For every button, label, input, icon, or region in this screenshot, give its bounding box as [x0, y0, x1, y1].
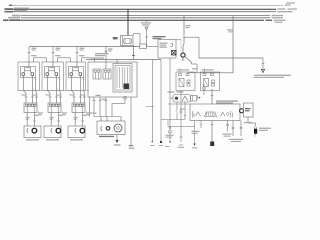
- label bus6 left: [3, 19, 20, 21]
- wire door boxes bottom join: [18, 90, 89, 92]
- master terminal circle: [203, 84, 206, 95]
- label bus5 right: [272, 17, 284, 18]
- wire drop bus4 right: [232, 16, 234, 73]
- label passenger drop: [108, 48, 113, 51]
- wire M2 left link: [170, 97, 173, 99]
- cluster B contact: [204, 79, 209, 87]
- sub-switch 3 internal wires: [75, 106, 82, 112]
- label wire color 2: [56, 48, 61, 51]
- power window relay box: [121, 36, 134, 46]
- wire bar to motor b: [106, 117, 108, 122]
- motor 3 pin: [75, 128, 76, 133]
- window sub-switch box 1: [24, 103, 37, 113]
- cluster A contact: [179, 79, 184, 87]
- wire switch 1 out mid: [31, 75, 33, 103]
- relay 2 link dashed: [176, 40, 181, 53]
- window motor 2: [56, 128, 61, 133]
- window motor 3 box: [68, 126, 85, 138]
- wire switch 2 out right: [59, 78, 62, 104]
- label cluster A: [177, 69, 189, 70]
- label window motor 1: [26, 139, 39, 140]
- wire cluster A pin stub: [180, 69, 205, 74]
- master switch cluster A box: [176, 72, 195, 91]
- label window motor 3: [70, 139, 83, 140]
- junction box: [140, 44, 147, 49]
- label arm wire: [192, 68, 198, 69]
- circuit breaker CB: [145, 20, 148, 46]
- sub-switch 3 pins: [74, 104, 85, 106]
- arrow to next circuit: [261, 69, 264, 72]
- label motor wire 3a: [73, 117, 78, 118]
- motor 4 pin: [101, 126, 102, 131]
- label window motor 2: [46, 139, 59, 140]
- ground Gf: [192, 144, 198, 149]
- master switch contact box: [168, 104, 240, 121]
- label bus1 right: [285, 4, 291, 5]
- wire motor 1 left: [26, 113, 29, 127]
- wire drop to switch 1: [28, 47, 31, 63]
- wire junction to relay2: [147, 46, 159, 48]
- label sub-switch 1: [38, 112, 43, 115]
- wire motor4 to ground: [116, 135, 118, 141]
- window motor 2 box: [44, 126, 61, 138]
- wire passenger box left edge down: [89, 97, 91, 117]
- M2 contact arm: [182, 96, 188, 101]
- wire rear switch feed b: [240, 121, 242, 137]
- wire passenger out 1: [93, 97, 96, 117]
- label front passenger window motor: [99, 136, 114, 137]
- window switch 2 outer box: [42, 62, 64, 91]
- motor 4 terminal: [106, 127, 110, 131]
- ground Ge: [178, 145, 185, 148]
- label rail f: [192, 131, 200, 134]
- window switch 1 outer box: [18, 62, 40, 91]
- left front window motor: [254, 129, 257, 134]
- label side box out: [244, 122, 252, 123]
- wire motor tail: [254, 134, 255, 138]
- passenger lockout sub-box: [113, 64, 132, 93]
- wire master mid: [211, 89, 214, 104]
- wire bridge 2: [58, 58, 71, 62]
- label left front window motor: [259, 128, 271, 131]
- power window relay 2 box: [158, 40, 176, 59]
- wire drop to passenger switch: [105, 47, 107, 63]
- connector ticks 2: [49, 96, 62, 98]
- label motor wire 2a: [49, 117, 54, 118]
- label bus2 left (A: WHITE): [5, 8, 30, 10]
- wire drop battery feed: [127, 9, 129, 35]
- wire ground rail a: [146, 60, 154, 142]
- label motor wire 1a: [25, 117, 30, 118]
- ground G ps5: [129, 146, 135, 149]
- label switch assembly 2: [55, 55, 61, 56]
- wire master link: [161, 102, 186, 120]
- label connector C relay: [113, 37, 118, 39]
- label motor wire 1b: [34, 115, 39, 116]
- label sub-switch 3: [86, 112, 91, 115]
- wire ground rail e: [180, 91, 183, 143]
- wire bus line 4 (ignition feed): [21, 15, 270, 17]
- wire motor 3 right: [81, 113, 84, 127]
- ground Gc: [165, 133, 174, 147]
- relay 2 bracket: [171, 44, 173, 47]
- wire bus line 3: [13, 11, 276, 13]
- ground Gg noise condenser: [210, 142, 214, 147]
- relay 2 rating text: [160, 43, 168, 48]
- M2 right small box: [191, 96, 197, 102]
- wire rear switch feed a: [232, 121, 234, 137]
- label bus3 left: [5, 10, 28, 12]
- wire lower link: [168, 120, 195, 127]
- window motor 1 box: [24, 126, 41, 138]
- label wire color 1: [32, 48, 37, 51]
- connector ticks 3: [73, 96, 86, 98]
- wire switch 2 out left: [47, 75, 50, 103]
- passenger switch section B: [103, 69, 111, 79]
- label wire color 3: [80, 48, 85, 51]
- wire branch right end: [262, 58, 265, 69]
- wire passenger out 3: [105, 97, 108, 117]
- relay 2 contact pivot: [181, 53, 185, 61]
- front passenger window motor: [114, 124, 122, 132]
- label power window rail: [90, 57, 104, 58]
- wire into lockout: [116, 60, 118, 64]
- wire join bar: [94, 117, 121, 122]
- label motor wire 3b: [82, 115, 87, 116]
- switch 1 contacts: [22, 71, 34, 76]
- front passenger window switch box: [88, 62, 137, 97]
- window switch 1 inner box: [21, 67, 36, 78]
- wire master out right: [223, 121, 232, 137]
- wire arm down: [192, 63, 198, 74]
- label switch assembly 1: [31, 55, 37, 56]
- passenger switch section A: [93, 69, 101, 79]
- window switch 3 outer box: [66, 62, 86, 91]
- connector left front: [254, 127, 256, 129]
- relay coil: [124, 39, 132, 44]
- wire passenger fifth down: [130, 97, 132, 145]
- wire main feed bus: [29, 46, 140, 48]
- contact arrows left: [193, 111, 201, 118]
- motor 2 pin: [51, 128, 52, 133]
- switch 3 rocker: [73, 62, 79, 71]
- label master wires: [168, 91, 184, 92]
- cluster A bracket: [187, 80, 190, 86]
- label bus6 right (BLK): [266, 20, 286, 23]
- master side box: [244, 103, 254, 117]
- wire horizontal into master: [188, 72, 234, 75]
- ground Gb: [159, 141, 163, 146]
- contact arrows right: [221, 111, 233, 117]
- wire ignition drop: [183, 16, 185, 36]
- label next circuit: [254, 75, 291, 78]
- contact rocker hatched: [205, 112, 217, 117]
- label ignition drop: [186, 25, 191, 28]
- switch 1 rocker: [25, 62, 31, 71]
- wire bus line 2 (WHT battery feed): [13, 8, 276, 10]
- label bus1 left: [9, 5, 13, 6]
- window switch 3 inner box: [69, 67, 84, 78]
- sub-switch 1 internal wires: [27, 106, 34, 112]
- wire drop to switch 3: [76, 47, 79, 63]
- wire switch 1 out right: [35, 78, 38, 104]
- label page ref top right: [286, 2, 295, 3]
- switch 2 contacts: [46, 71, 58, 76]
- label passenger out: [96, 95, 107, 100]
- passenger switch terminal: [112, 96, 126, 116]
- wire switch 3 out left: [71, 75, 74, 103]
- relay 2 coil: [172, 51, 177, 56]
- wire passenger out 2: [99, 97, 102, 117]
- wire bus line 5: [21, 17, 270, 19]
- window motor 1: [32, 128, 37, 133]
- label circuit breaker: [141, 22, 151, 25]
- sub-switch 1 pins: [26, 104, 37, 106]
- label harness 2: [46, 94, 62, 95]
- connector hooks inner: [200, 121, 202, 129]
- sub-switch 2 pins: [50, 104, 61, 106]
- wire bridge 1: [34, 58, 47, 62]
- label bus4 right: [272, 15, 284, 16]
- label front passenger window switch: [95, 53, 109, 56]
- label power window master switch: [216, 101, 238, 104]
- M2 bottom stub: [176, 102, 177, 120]
- label power window relay: [153, 36, 166, 39]
- wire ground rail c: [169, 58, 172, 133]
- relay 2 arm: [185, 56, 192, 62]
- label harness 1: [22, 94, 38, 95]
- wire motor 2 right: [57, 113, 60, 127]
- label harness 3: [70, 94, 86, 95]
- label motor wire 2b: [58, 115, 63, 116]
- connector ignition: [183, 37, 185, 53]
- lockout dark contact: [124, 84, 130, 90]
- label rear switch wires: [229, 139, 243, 142]
- wire switch 1 out left: [23, 75, 26, 103]
- window switch 2 inner box: [45, 67, 60, 78]
- wire drop to switch 2: [52, 47, 55, 63]
- ground G motor4: [114, 140, 121, 146]
- master box terminal: [240, 109, 244, 113]
- M2 bracket contact: [198, 96, 201, 100]
- wire relay to junction: [134, 34, 141, 45]
- cluster B bracket: [212, 80, 215, 86]
- label bus4 left: [12, 15, 21, 17]
- front passenger window motor box: [97, 121, 125, 135]
- wire branch at 37: [184, 37, 199, 58]
- label bus2 right (BAT): [278, 8, 298, 9]
- wire bus line 1 (WHT feed): [13, 4, 283, 6]
- window motor 3: [80, 128, 85, 133]
- label drop right: [227, 29, 233, 32]
- switch 2 rocker: [49, 62, 55, 71]
- cluster B pins: [203, 74, 214, 76]
- window sub-switch box 2: [48, 103, 61, 113]
- wire into passenger switch: [105, 62, 107, 69]
- wire rail to master switch: [86, 59, 161, 61]
- wire motor 2 left: [50, 113, 53, 127]
- master switch cluster B box: [201, 72, 220, 91]
- wire side box out: [248, 117, 256, 126]
- ground Ga: [150, 141, 154, 146]
- label sub-switch 2: [62, 112, 67, 115]
- wire right feed: [199, 57, 263, 59]
- wire switch 2 out mid: [55, 75, 57, 103]
- wire master out mid: [211, 121, 214, 142]
- motor 1 pin: [27, 128, 28, 133]
- wire bar to motor a: [100, 117, 102, 122]
- label bus5 left: [8, 17, 20, 19]
- wire relay output down: [132, 46, 135, 60]
- window sub-switch box 3: [72, 103, 85, 113]
- sub-switch 2 internal wires: [51, 106, 58, 112]
- wire switch 3 out right: [83, 78, 86, 104]
- label side box: [245, 108, 251, 111]
- M2 contact dot: [175, 97, 178, 100]
- cluster A pins: [179, 74, 190, 76]
- master switch box M2: [173, 95, 191, 103]
- label master link: [180, 109, 185, 110]
- wire bus line 6 (BLK ground rail): [9, 19, 264, 21]
- wire bridge 3: [82, 58, 95, 62]
- wire motor 3 left: [74, 113, 77, 127]
- label bus3 right: [278, 11, 293, 12]
- lockout hatching: [117, 67, 127, 88]
- label cluster B: [202, 69, 214, 70]
- label connector bar: [90, 113, 97, 114]
- label switch assembly 3: [79, 55, 85, 56]
- switch 3 contacts: [70, 71, 82, 76]
- wire motor 1 right: [33, 113, 36, 127]
- connector ticks 1: [25, 96, 38, 98]
- wire ground rail f: [194, 121, 196, 144]
- wire ground rail b: [160, 60, 162, 143]
- wire switch 3 out mid: [79, 75, 81, 103]
